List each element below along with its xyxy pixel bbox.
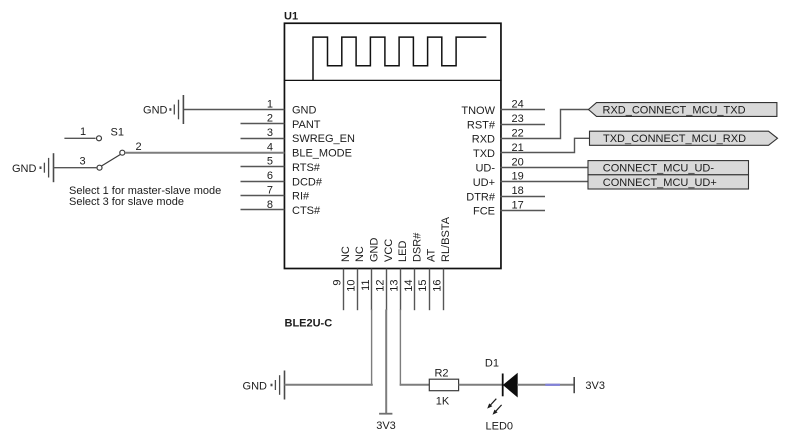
pin 8 CTS# xyxy=(241,199,322,217)
svg-text:DTR#: DTR# xyxy=(466,191,496,203)
svg-text:CTS#: CTS# xyxy=(292,205,321,217)
resistor R2 xyxy=(429,368,458,408)
svg-text:16: 16 xyxy=(432,280,444,292)
LED D1 triangle xyxy=(504,374,518,397)
svg-text:AT: AT xyxy=(426,248,438,262)
port CONNECT_MCU_UD+ xyxy=(588,175,749,189)
pin 4 BLE_MODE xyxy=(267,141,352,159)
pin 10 NC xyxy=(346,246,367,310)
wire U1 pin 21 to port TXD_CONNECT_MCU_RXD xyxy=(501,138,591,152)
svg-text:Select 1 for master-slave mode: Select 1 for master-slave mode xyxy=(69,185,221,197)
pin 16 RL/BSTA xyxy=(432,216,453,310)
ground symbol GND (top, to pin 1) xyxy=(143,95,183,124)
svg-text:GND: GND xyxy=(143,104,168,116)
switch S1 pin 1 contact circle xyxy=(97,136,102,141)
svg-text:R2: R2 xyxy=(434,368,448,380)
pin 15 AT xyxy=(417,248,438,310)
svg-text:Select 3 for slave mode: Select 3 for slave mode xyxy=(69,196,184,208)
svg-text:D1: D1 xyxy=(485,358,499,370)
svg-text:GND: GND xyxy=(369,238,381,263)
U1 refdes label xyxy=(284,10,298,22)
svg-text:1: 1 xyxy=(80,126,86,138)
svg-text:CONNECT_MCU_UD+: CONNECT_MCU_UD+ xyxy=(603,177,717,189)
svg-text:7: 7 xyxy=(267,184,273,196)
pin 5 RTS# xyxy=(241,156,321,174)
svg-text:S1: S1 xyxy=(111,127,124,139)
svg-text:BLE_MODE: BLE_MODE xyxy=(292,148,352,160)
switch S1 pin 1 stub wire xyxy=(64,126,95,138)
pin 19 UD+ xyxy=(473,171,524,189)
pin 22 RXD xyxy=(472,128,524,146)
svg-text:TXD: TXD xyxy=(473,148,495,160)
svg-text:13: 13 xyxy=(389,280,401,292)
svg-text:12: 12 xyxy=(374,280,386,292)
svg-text:RTS#: RTS# xyxy=(292,162,321,174)
pin 2 PANT xyxy=(241,113,321,131)
power symbol 3V3 (right, at D1 anode) xyxy=(574,377,605,393)
svg-text:RL/BSTA: RL/BSTA xyxy=(440,216,452,262)
switch S1 blade xyxy=(102,155,121,167)
ground symbol GND (left, to S1 pin 3) xyxy=(12,153,54,182)
wire bottom GND to U1 pin 11 (thick) xyxy=(285,384,373,386)
svg-text:TNOW: TNOW xyxy=(461,105,495,117)
pin 20 UD- xyxy=(475,156,523,174)
wire R2 to D1 (thick) xyxy=(459,384,503,386)
port RXD_CONNECT_MCU_TXD xyxy=(589,103,777,117)
svg-text:2: 2 xyxy=(267,113,273,125)
svg-text:BLE2U-C: BLE2U-C xyxy=(285,318,333,330)
svg-text:UD+: UD+ xyxy=(473,177,495,189)
pin 13 LED xyxy=(389,241,410,311)
svg-text:3V3: 3V3 xyxy=(376,420,396,432)
svg-text:DSR#: DSR# xyxy=(411,232,423,262)
switch S1 refdes label xyxy=(111,127,124,139)
antenna meander inside U1 xyxy=(313,37,486,80)
wire D1 to 3V3 (thick) xyxy=(517,384,574,386)
pin 9 NC (bottom) xyxy=(331,246,352,310)
wire S1 pin 2 to U1 pin 4 (thick) xyxy=(125,152,285,154)
svg-text:RST#: RST# xyxy=(467,119,496,131)
pin 24 TNOW xyxy=(461,99,545,117)
svg-text:8: 8 xyxy=(267,199,273,211)
wire U1 pin 11 extension (thick) xyxy=(371,310,373,386)
pin 1 GND (left) xyxy=(183,98,316,116)
svg-text:GND: GND xyxy=(12,163,37,175)
svg-text:11: 11 xyxy=(360,280,372,291)
svg-text:1: 1 xyxy=(267,98,273,110)
svg-text:LED0: LED0 xyxy=(486,421,514,433)
svg-text:FCE: FCE xyxy=(473,206,495,218)
svg-text:CONNECT_MCU_UD-: CONNECT_MCU_UD- xyxy=(603,163,715,175)
pin 7 RI# xyxy=(241,184,311,202)
pin 21 TXD xyxy=(473,142,524,160)
svg-text:RXD: RXD xyxy=(472,134,495,146)
svg-text:PANT: PANT xyxy=(292,119,321,131)
svg-text:TXD_CONNECT_MCU_RXD: TXD_CONNECT_MCU_RXD xyxy=(603,133,746,145)
svg-text:RXD_CONNECT_MCU_TXD: RXD_CONNECT_MCU_TXD xyxy=(603,104,746,116)
svg-text:GND: GND xyxy=(292,105,317,117)
pin 14 DSR# xyxy=(403,232,424,310)
svg-text:1K: 1K xyxy=(436,396,450,408)
wire U1 pin 13 to R2 (thick) xyxy=(400,310,430,386)
svg-text:UD-: UD- xyxy=(475,163,495,175)
note text xyxy=(69,185,221,208)
U1 internal divider xyxy=(284,79,502,81)
wire GND to S1 pin 3 xyxy=(54,167,98,169)
wire blue highlighted segment xyxy=(545,384,560,386)
svg-text:DCD#: DCD# xyxy=(292,176,323,188)
svg-text:9: 9 xyxy=(331,280,343,286)
LED D1 cathode bar xyxy=(502,374,504,397)
LED D1 emission arrow 1 xyxy=(487,399,496,409)
switch S1 pin 3 contact circle xyxy=(79,155,102,170)
LED D1 net label LED0 xyxy=(486,421,514,433)
pin 17 FCE xyxy=(473,200,545,218)
svg-text:22: 22 xyxy=(512,128,524,140)
svg-text:20: 20 xyxy=(512,156,524,168)
svg-text:5: 5 xyxy=(267,156,273,168)
svg-text:17: 17 xyxy=(512,200,524,212)
port CONNECT_MCU_UD- xyxy=(588,161,749,175)
svg-text:VCC: VCC xyxy=(383,239,395,262)
svg-text:SWREG_EN: SWREG_EN xyxy=(292,133,355,145)
pin 23 RST# xyxy=(467,113,545,131)
svg-text:2: 2 xyxy=(135,141,141,153)
ground symbol GND (bottom, to pin 11) xyxy=(243,371,285,400)
svg-text:3V3: 3V3 xyxy=(585,380,605,392)
svg-text:23: 23 xyxy=(512,113,524,125)
svg-text:3: 3 xyxy=(267,127,273,139)
pin 3 SWREG_EN xyxy=(241,127,356,145)
svg-text:6: 6 xyxy=(267,170,273,182)
svg-text:NC: NC xyxy=(340,246,352,262)
LED D1 refdes label xyxy=(485,358,499,370)
pin 11 GND (bottom) xyxy=(360,238,381,311)
svg-text:GND: GND xyxy=(243,380,268,392)
pin 12 VCC xyxy=(374,239,395,310)
svg-text:3: 3 xyxy=(79,155,85,167)
pin 18 DTR# xyxy=(466,185,545,203)
IC U1 body xyxy=(284,23,501,268)
svg-text:15: 15 xyxy=(417,280,429,292)
LED D1 emission arrow 2 xyxy=(493,405,502,415)
power symbol 3V3 (bar, at pin 12) xyxy=(376,414,396,433)
wire U1 pin 19 to port CONNECT_MCU_UD+ xyxy=(501,181,589,183)
svg-text:14: 14 xyxy=(403,280,415,292)
svg-text:LED: LED xyxy=(397,241,409,262)
svg-text:NC: NC xyxy=(354,246,366,262)
svg-text:RI#: RI# xyxy=(292,191,310,203)
wire U1 pin 22 to port RXD_CONNECT_MCU_TXD xyxy=(501,110,590,139)
port TXD_CONNECT_MCU_RXD xyxy=(590,131,778,145)
svg-text:18: 18 xyxy=(512,185,524,197)
svg-text:U1: U1 xyxy=(284,10,298,22)
pin 6 DCD# xyxy=(241,170,323,188)
U1 value label BLE2U-C xyxy=(285,318,333,330)
wire U1 pin 20 to port CONNECT_MCU_UD- xyxy=(501,167,589,169)
switch S1 pin 2 contact circle xyxy=(120,141,142,155)
wire U1 pin 12 to 3V3 (thick) xyxy=(385,310,387,414)
svg-text:10: 10 xyxy=(346,280,358,292)
svg-text:4: 4 xyxy=(267,141,273,153)
svg-text:24: 24 xyxy=(512,99,524,111)
